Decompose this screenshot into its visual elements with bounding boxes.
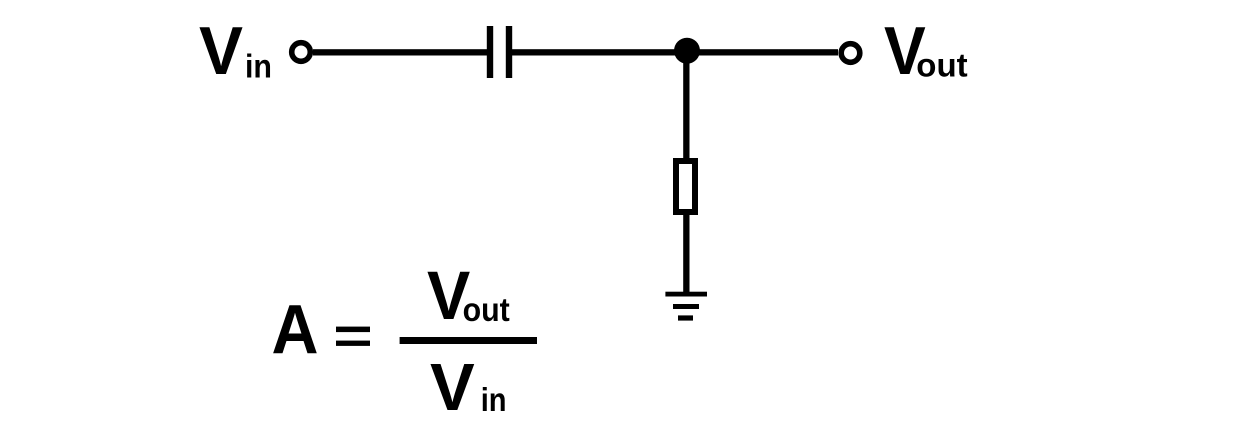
formula fraction bar xyxy=(400,337,537,344)
input terminal (open circle) xyxy=(292,43,311,62)
junction node (solder dot) xyxy=(674,38,700,64)
wire from Vin terminal to capacitor xyxy=(313,49,487,55)
svg-text:in: in xyxy=(245,47,272,84)
node Vin label xyxy=(199,13,272,89)
svg-text:in: in xyxy=(481,381,507,418)
output terminal (open circle) xyxy=(841,44,860,63)
wire from capacitor through junction to Vout terminal xyxy=(512,49,838,55)
svg-text:V: V xyxy=(199,13,243,89)
formula: A xyxy=(272,291,319,369)
svg-text:out: out xyxy=(463,291,511,328)
ground symbol (middle bar) xyxy=(673,304,699,309)
svg-text:V: V xyxy=(430,350,475,422)
svg-text:A: A xyxy=(272,291,319,369)
formula: equals sign (top bar) xyxy=(336,327,370,333)
formula: equals sign (bottom bar) xyxy=(336,341,370,346)
resistor R1 (box symbol) xyxy=(676,161,695,212)
svg-text:out: out xyxy=(916,47,967,84)
formula denominator: Vin xyxy=(430,350,507,422)
ground symbol (bottom bar) xyxy=(678,315,693,320)
ground symbol (top bar) xyxy=(665,292,707,297)
formula numerator: Vout xyxy=(427,257,510,334)
wire from resistor down to ground xyxy=(683,215,689,292)
wire from junction down to resistor xyxy=(683,51,689,158)
capacitor C1 (left plate) xyxy=(487,26,493,78)
node Vout label xyxy=(884,13,968,89)
capacitor C1 (right plate) xyxy=(506,26,512,78)
